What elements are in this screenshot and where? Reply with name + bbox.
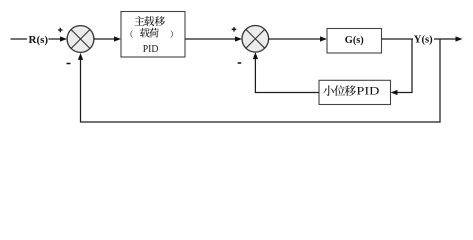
wire summing junction 1 to PID block with arrowhead: [94, 38, 115, 40]
svg-text:PID: PID: [356, 84, 379, 98]
control system block diagram: [0, 0, 473, 142]
wire R(s) to summing junction 1 with arrowhead: [49, 38, 62, 40]
wire small displacement PID to summing junction 2 with arrowhead up: [255, 57, 319, 93]
svg-text:Y(s): Y(s): [414, 33, 433, 45]
block text line 1: 主载移: [134, 16, 144, 25]
output wire with arrowhead: [434, 38, 456, 40]
block: plant transfer function G(s): [327, 29, 382, 54]
block: main displacement (load) PID controller: [121, 12, 185, 58]
wire summing junction 2 to G(s) block with arrowhead: [269, 38, 321, 40]
plus sign at summing junction 2: [232, 27, 237, 32]
plus sign at summing junction 1: [58, 28, 63, 33]
summing junction 1 (circle with X): [67, 26, 94, 53]
wire PID block to summing junction 2 with arrowhead: [185, 38, 236, 40]
svg-text:R(s): R(s): [29, 34, 49, 46]
block: small displacement PID (小位移PID): [319, 80, 391, 104]
svg-text:PID: PID: [143, 43, 159, 55]
block text line 2: （载荷）: [131, 30, 133, 38]
input stub line before R(s): [11, 38, 28, 40]
wire: outer feedback branch from output down, across bottom, up to summing junction 1: [81, 39, 441, 122]
wire G(s) block to output node: [382, 38, 414, 40]
minus sign at summing junction 1 feedback input: [67, 63, 71, 65]
minus sign at summing junction 2 feedback input: [238, 62, 242, 64]
summing junction 2 (circle with X): [242, 26, 269, 53]
block text 小位移PID: [323, 85, 334, 96]
svg-text:G(s): G(s): [345, 34, 364, 46]
wire: branch node down to inner feedback (small displacement PID): [397, 39, 412, 93]
